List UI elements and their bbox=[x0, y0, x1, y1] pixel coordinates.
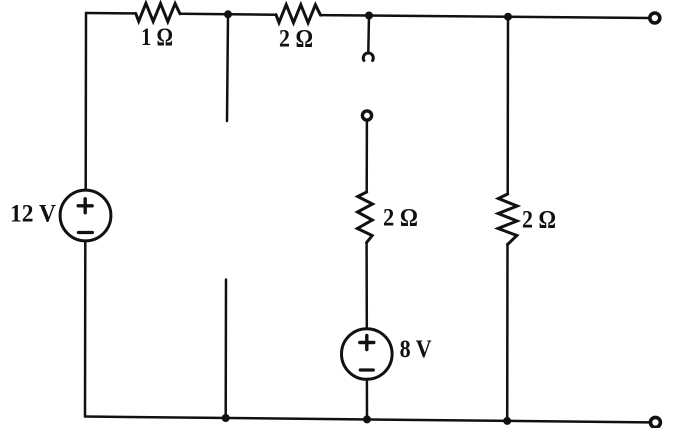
wire top right segment bbox=[321, 15, 649, 18]
svg-text:12 V: 12 V bbox=[10, 201, 56, 228]
terminal top right bbox=[650, 13, 660, 23]
V1 plus sign bbox=[78, 199, 92, 213]
wire left side upper bbox=[84, 13, 87, 190]
svg-text:2 Ω: 2 Ω bbox=[522, 207, 556, 234]
wire V2 to bottom bbox=[366, 379, 369, 419]
resistor R2 2Ω zigzag bbox=[276, 5, 321, 23]
node bottom 3 bbox=[503, 417, 511, 425]
wire open stub lower bbox=[224, 280, 227, 419]
node bottom 1 bbox=[222, 414, 230, 422]
wire terminal to R3 bbox=[365, 122, 368, 193]
V2 minus sign bbox=[360, 368, 373, 371]
terminal bottom right bbox=[650, 417, 660, 427]
svg-text:2 Ω: 2 Ω bbox=[279, 26, 313, 53]
svg-text:2 Ω: 2 Ω bbox=[383, 205, 418, 232]
voltage source V1 circle bbox=[60, 190, 111, 241]
resistor R1 1Ω zigzag bbox=[136, 3, 180, 21]
wire R3 to V2 bbox=[365, 243, 368, 329]
wire between R1 and R2 bbox=[180, 13, 276, 16]
node bottom 2 bbox=[363, 415, 371, 423]
V1 minus sign bbox=[78, 231, 92, 234]
wire open stub upper (node A) bbox=[227, 14, 228, 121]
node top 2 bbox=[365, 12, 373, 20]
resistor R4 2Ω vertical zigzag bbox=[498, 194, 517, 245]
voltage source V2 circle bbox=[342, 329, 393, 380]
wire right branch upper bbox=[506, 17, 509, 194]
terminal b (open circle) bbox=[362, 111, 371, 120]
wire left side lower bbox=[84, 241, 87, 417]
wire bottom bbox=[85, 417, 649, 423]
terminal a (open hook) bbox=[363, 53, 373, 61]
svg-text:8 V: 8 V bbox=[400, 336, 432, 363]
wire right branch lower bbox=[506, 245, 509, 421]
wire top-left segment bbox=[86, 12, 136, 15]
node top 3 bbox=[504, 13, 512, 21]
resistor R3 2Ω vertical zigzag bbox=[357, 192, 372, 243]
svg-text:1 Ω: 1 Ω bbox=[141, 24, 173, 51]
wire middle branch top bbox=[367, 16, 370, 53]
node top 1 bbox=[224, 10, 232, 18]
V2 plus sign bbox=[360, 336, 374, 350]
